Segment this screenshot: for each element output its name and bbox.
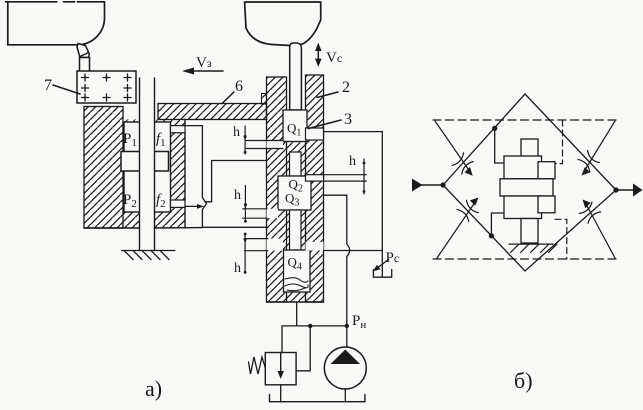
svg-text:а): а): [145, 376, 162, 401]
stylus / spool stem: [290, 43, 302, 110]
pump: [324, 347, 366, 402]
node bottom-left: [489, 233, 494, 238]
tool holder 7 (magnetic block): [77, 71, 136, 103]
dashed wire top-right to spool: [555, 120, 563, 164]
dashed wire bottom-right to spool: [555, 219, 567, 259]
cylinder bore chambers P1/P2: [124, 122, 171, 212]
dashed line bottom: [433, 258, 617, 260]
wire node BL to spool: [491, 213, 504, 236]
valve chamber Q4: [284, 250, 311, 292]
svg-text:Vз: Vз: [196, 55, 212, 71]
svg-text:h: h: [233, 125, 240, 140]
right bottom window (drain): [306, 242, 324, 251]
outlet arrow right: [613, 184, 642, 197]
valve window 3 (right wall): [306, 128, 324, 140]
spool stem slot between Q1 and Q2: [290, 152, 302, 176]
svg-text:7: 7: [44, 77, 52, 94]
wire node TL to spool: [495, 128, 504, 163]
valve chamber Q1: [283, 110, 307, 142]
workpiece (grinding wheel) top-left: [6, 2, 105, 45]
svg-text:б): б): [514, 368, 533, 393]
valve bottom drain to branch: [296, 302, 298, 326]
node top-left: [492, 126, 497, 131]
Vc arrow: [315, 43, 342, 67]
valve chamber Q2/Q3: [278, 176, 311, 210]
left wall slot pair3: [267, 239, 284, 251]
gap dimension h (pair2, left): [234, 186, 267, 223]
spool model: lower body: [504, 196, 542, 219]
chamber / port labels: [123, 131, 166, 210]
throttle bottom-right: [579, 200, 615, 259]
left wall slot pair2: [267, 209, 279, 218]
throttle top-left: [435, 121, 473, 176]
piston: [121, 152, 169, 172]
port f2 slot: [171, 200, 186, 207]
bridge diamond: [443, 94, 616, 271]
throttle top-right: [578, 121, 615, 176]
valve body 2 (hatched): [262, 75, 324, 302]
gap dimension h (pair1, left): [233, 125, 283, 154]
svg-text:Pc: Pc: [386, 250, 400, 266]
cylinder block body (hatched): [84, 107, 202, 229]
inlet arrow left: [412, 179, 446, 192]
machine slide beam 6 (hatched): [158, 104, 267, 120]
svg-text:h: h: [349, 154, 356, 169]
pipe middle to valve: [205, 161, 267, 202]
drain pipe from bottom right window to Pc: [324, 250, 383, 252]
pipe from f1 to spool sleeve: [185, 126, 267, 228]
spool stem slot between Q3 and Q4: [290, 210, 302, 250]
spool model: lower right ext: [538, 196, 555, 213]
spool model ground: [509, 244, 557, 252]
piston rod: [140, 78, 155, 251]
label 3 with leader: [309, 111, 353, 129]
relief valve outlet to tank: [280, 385, 282, 402]
dashed line top: [433, 119, 617, 121]
svg-text:3: 3: [344, 111, 352, 128]
spool model: top stem: [521, 139, 538, 162]
svg-text:Pн: Pн: [352, 313, 366, 331]
left wall slot pair1: [267, 141, 284, 149]
label 7 with leader: [44, 77, 80, 94]
pilot line to relief valve: [296, 326, 310, 371]
svg-text:h: h: [234, 261, 241, 276]
pipe Q1-window to drain (right): [324, 132, 383, 278]
junction dots: [345, 324, 349, 328]
tank / drain symbol Pc: [373, 260, 392, 278]
spool model: upper body: [504, 156, 542, 179]
supply line from pump (vertical): [324, 195, 350, 347]
label 6 with leader: [222, 78, 243, 104]
ground anchor under rod: [122, 251, 175, 260]
velocity arrow V3: [182, 55, 223, 75]
gap dimension h (pair3, left): [234, 233, 268, 276]
spool model: bottom stem: [521, 219, 538, 244]
port f1 slot: [171, 126, 186, 133]
pipe stub from f2 with arrow: [185, 204, 204, 209]
svg-text:Vc: Vc: [326, 50, 342, 66]
relief valve: [265, 353, 296, 385]
template (copier cam) top-right: [245, 2, 321, 46]
right window at Q2 level: [306, 175, 324, 181]
gap dimension h (right): [324, 154, 367, 194]
label 2 with leader: [317, 79, 350, 98]
tool bit: [77, 44, 90, 72]
tank under pump: [270, 395, 365, 402]
branch line to relief valve: [282, 326, 347, 353]
svg-text:h: h: [234, 188, 241, 203]
svg-text:2: 2: [342, 79, 350, 96]
throttle bottom-left: [437, 198, 479, 259]
relief valve spring: [249, 357, 266, 374]
svg-text:6: 6: [235, 78, 243, 95]
spool model: piston band: [500, 179, 553, 196]
spool model: upper right ext: [538, 162, 555, 179]
